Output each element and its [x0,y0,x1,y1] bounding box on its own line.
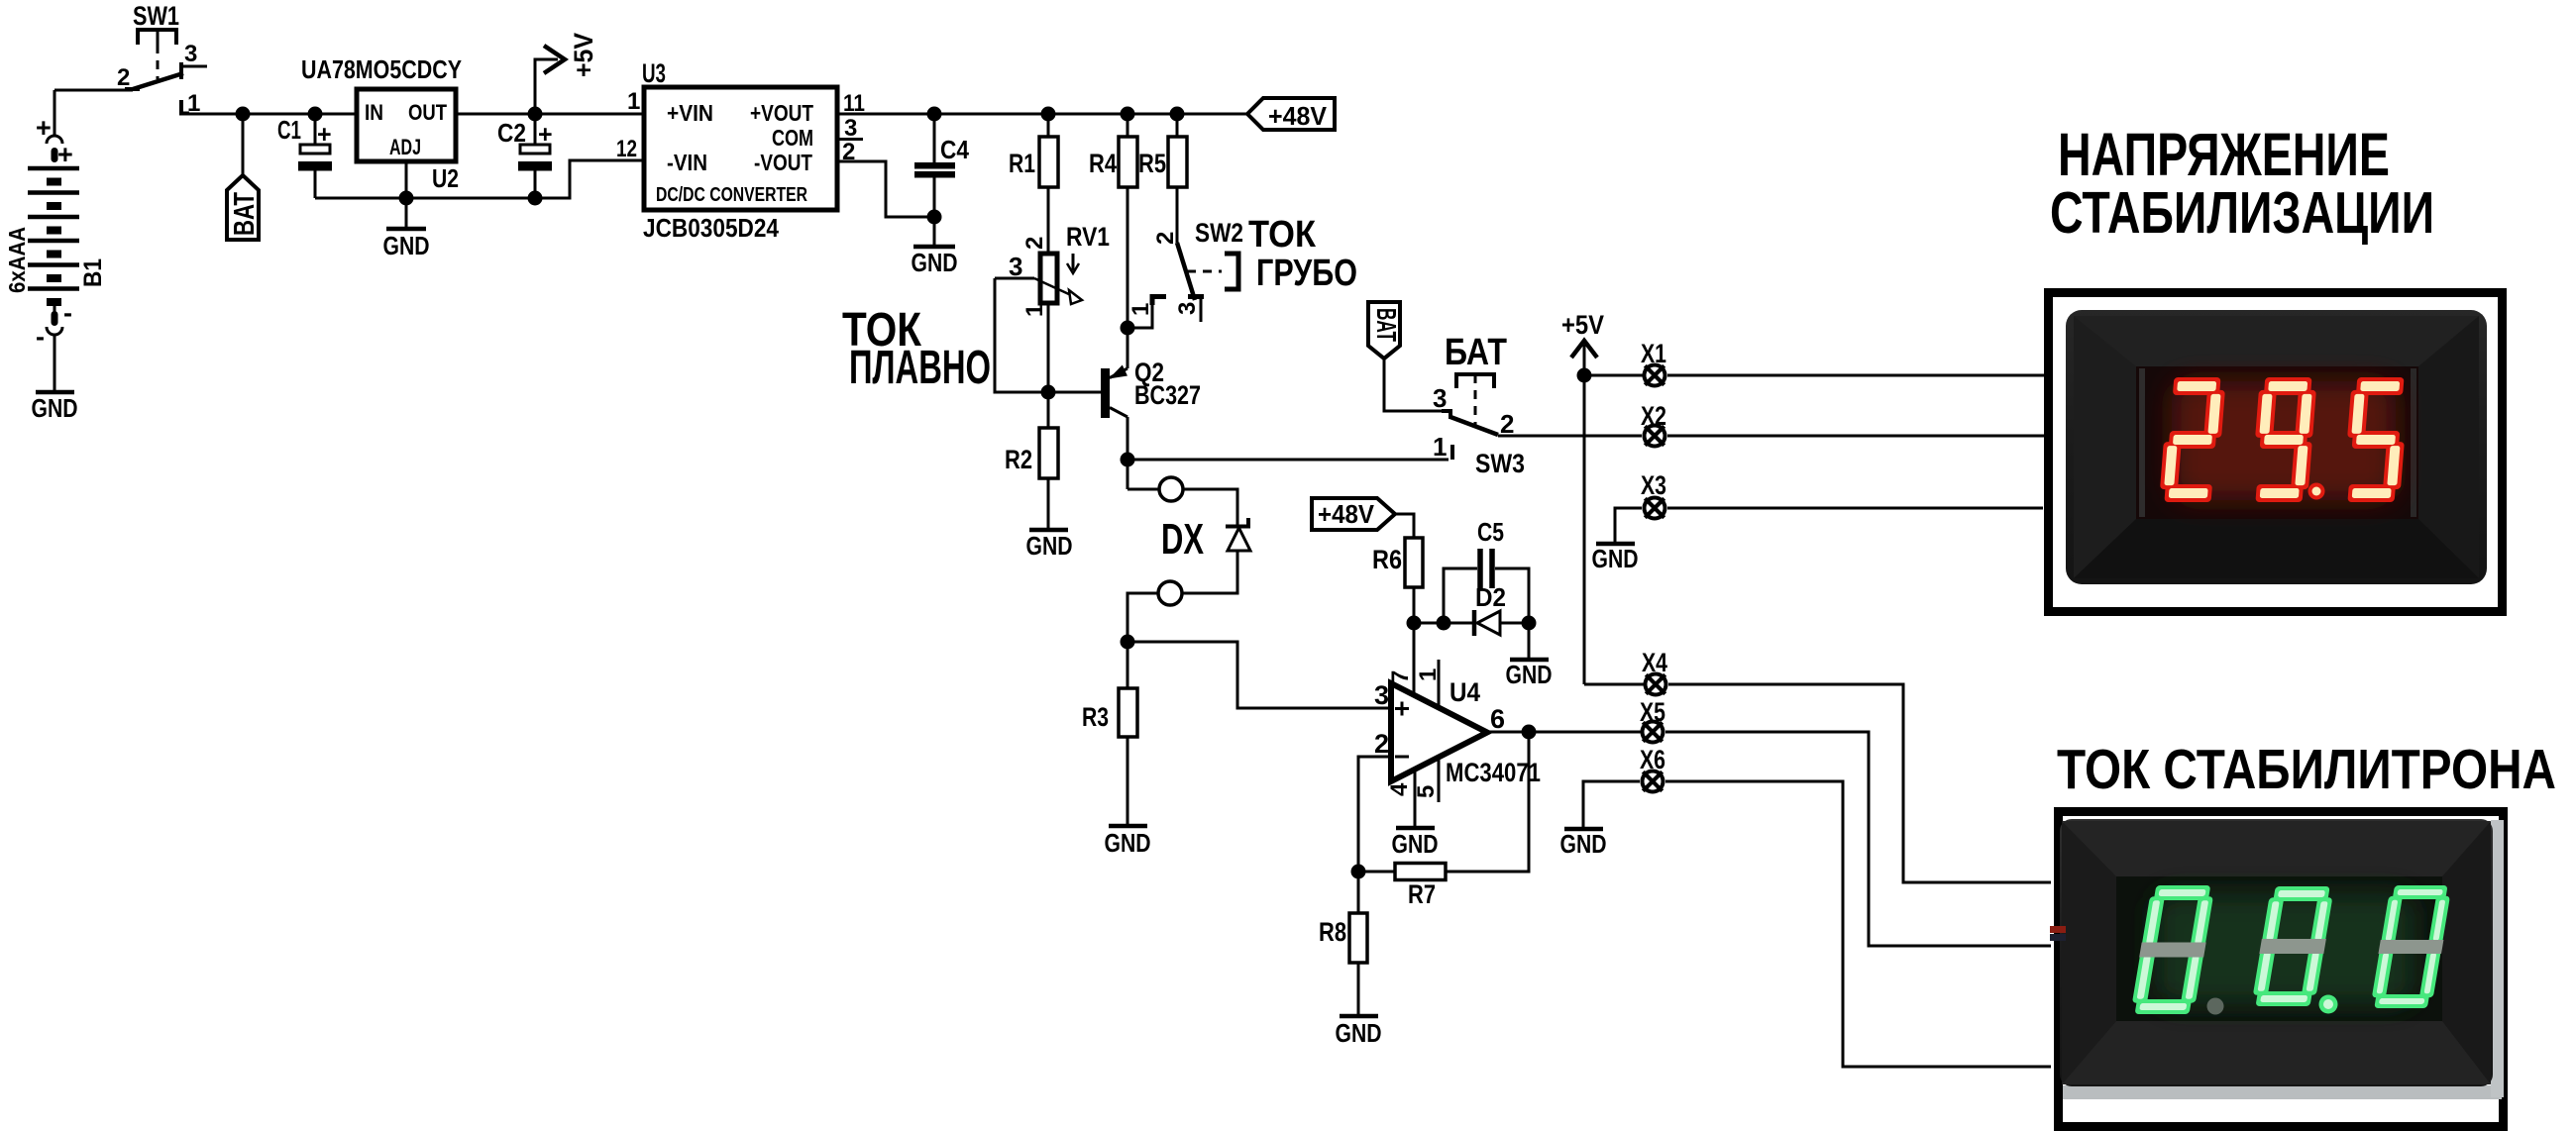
svg-text:+: + [317,121,332,149]
wire X3 gnd link [1615,508,1642,542]
junction gnd rail/ADJ [399,191,414,206]
svg-text:JCB0305D24: JCB0305D24 [643,213,779,243]
svg-text:1: 1 [1127,303,1154,316]
resistor R2 [1005,392,1058,478]
svg-text:R3: R3 [1082,702,1109,732]
terminal (test clip +) [1159,477,1183,501]
svg-text:DX: DX [1161,515,1204,564]
terminal (test clip -) [1158,581,1182,605]
wire RV1 pin1 down [1047,303,1050,392]
svg-text:12: 12 [616,136,637,162]
svg-text:3: 3 [1433,383,1447,413]
svg-text:GND: GND [1392,829,1439,859]
net flag BAT (right) [1368,302,1402,359]
wire X4 to display [1668,684,2051,882]
potentiometer RV1 [995,222,1110,317]
svg-text:BC327: BC327 [1134,380,1201,410]
green ammeter photo [2060,819,2504,1099]
ground C4 [912,217,958,277]
wire SW1 pin2 to battery [54,89,133,92]
wire U2 OUT to U3 [456,113,644,116]
junction sense node [1121,635,1135,650]
svg-text:GND: GND [383,231,430,260]
wire U4 pin2 to feedback node [1358,757,1391,872]
wire X5 to display [1665,732,2051,946]
connector X3 [1641,470,1666,519]
switch SW2 [1127,187,1243,328]
svg-text:R7: R7 [1408,879,1436,909]
red 7-seg digit 2 [2159,377,2226,502]
svg-text:D2: D2 [1475,582,1506,612]
switch SW1 [117,1,207,117]
svg-text:7: 7 [1387,670,1414,683]
ground U4 pin4 [1392,770,1439,859]
power symbol +5V (right) [1561,310,1604,684]
resistor R5 [1138,114,1187,187]
ground U2 [383,198,430,260]
svg-text:COM: COM [772,125,813,151]
svg-text:U3: U3 [642,58,666,88]
ground X6 [1560,781,1641,859]
diode D2 [1474,582,1529,636]
wire R4 down to emitter node [1127,187,1129,368]
svg-text:R4: R4 [1089,149,1117,178]
display frame (voltmeter) [2049,293,2503,612]
wire U3 -VOUT to gnd net [837,161,934,217]
wire terminal to DX cathode [1183,489,1237,526]
wire X2 to display [1667,435,2047,438]
net flag BAT (left) [227,175,261,240]
svg-text:GND: GND [1560,829,1607,859]
junction C4/-VOUT [927,210,942,225]
wire X3 to display [1667,507,2043,510]
svg-text:R6: R6 [1372,545,1402,574]
svg-text:1: 1 [1021,304,1048,317]
net flag +48V (op-amp supply) [1312,498,1395,530]
resistor R7 [1358,864,1446,910]
svg-text:GND: GND [912,248,958,277]
svg-text:SW2: SW2 [1195,218,1243,248]
ground D2 [1506,623,1553,689]
svg-text:C4: C4 [940,135,969,164]
svg-text:3: 3 [1174,302,1201,315]
junction rail/R4 [1121,107,1135,122]
zener diode DX [1161,515,1250,564]
svg-text:+: + [57,140,73,169]
svg-text:СТАБИЛИЗАЦИИ: СТАБИЛИЗАЦИИ [2050,180,2434,246]
wire SW1 pin1 to U2 IN (main rail) [188,113,357,116]
capacitor C4 [914,114,969,217]
junction feedback node [1351,865,1366,879]
green unlit dot [2207,998,2224,1015]
net flag +48V (rail) [1247,98,1335,131]
svg-text:IN: IN [365,100,383,125]
junction R6/D2/pin7 [1407,616,1422,631]
svg-text:-VIN: -VIN [667,150,707,175]
svg-text:3: 3 [1374,680,1389,710]
svg-text:6: 6 [1490,704,1505,734]
svg-text:2: 2 [1021,237,1048,250]
display frame (ammeter) [2059,812,2504,1127]
svg-text:+VOUT: +VOUT [750,100,813,126]
battery B1 (6xAAA) [28,90,79,352]
wire collector to terminal [1127,488,1159,491]
junction collector/SW3 wire [1121,453,1135,467]
connector X6 [1640,745,1665,792]
wire +5V to X4 [1584,683,1644,686]
svg-text:R2: R2 [1005,445,1032,474]
wire SW3 pin2 to X2 [1498,435,1642,438]
capacitor C1 [277,114,332,198]
ground R8 [1336,963,1382,1048]
wire base node to Q2 [1048,391,1101,394]
svg-text:U4: U4 [1449,677,1480,707]
svg-text:-VOUT: -VOUT [754,150,812,175]
svg-text:GND: GND [1336,1018,1382,1048]
wire Q2 collector down [1127,417,1129,489]
svg-text:2: 2 [117,64,130,91]
switch SW3 [1433,332,1525,478]
svg-text:R5: R5 [1138,149,1166,178]
wire X6 to display [1665,781,2051,1067]
red wire stub in photo [2050,926,2066,933]
svg-text:-: - [36,322,45,352]
green 7-seg digit 0 (second) [2250,886,2334,1006]
dc/dc converter U3 JCB0305D24 [642,58,837,243]
red 7-seg digit 9 [2250,377,2317,502]
wire to BAT flag [242,114,245,175]
resistor R3 [1082,642,1137,737]
junction base node [1041,385,1056,400]
svg-text:3: 3 [844,115,857,142]
svg-text:1: 1 [1415,668,1442,681]
svg-text:C5: C5 [1477,517,1504,547]
wire R6 to pin7 node [1413,587,1416,623]
svg-text:ГРУБО: ГРУБО [1256,253,1357,294]
junction +5V/X1 [1577,368,1592,383]
wire +5V to X1 [1584,374,1643,377]
svg-text:+48V: +48V [1318,499,1375,529]
svg-text:+: + [538,121,553,149]
transistor Q2 BC327 [1101,358,1201,418]
connector X5 [1640,697,1665,743]
svg-text:ТОК СТАБИЛИТРОНА: ТОК СТАБИЛИТРОНА [2057,738,2556,801]
wire R1 to RV1 [1047,187,1050,254]
wire sense node to op-amp pin3 [1127,642,1391,708]
svg-text:БАТ: БАТ [1445,332,1507,373]
svg-text:1: 1 [1433,432,1447,462]
junction gnd rail/C2 [528,191,543,206]
green 7-seg digit 0 (third) [2369,885,2452,1008]
resistor R8 [1319,872,1367,963]
junction rail/R1 [1041,107,1056,122]
svg-text:R1: R1 [1009,149,1035,178]
wire X1 to display [1667,374,2047,377]
capacitor C2 [497,114,553,198]
power symbol +5V (left) [535,33,598,114]
svg-text:R8: R8 [1319,917,1346,947]
svg-text:OUT: OUT [408,100,447,125]
pin 3 stub U3 [839,138,863,141]
svg-text:DC/DC CONVERTER: DC/DC CONVERTER [656,184,807,206]
junction output/X5 [1522,725,1537,740]
red voltmeter photo bezel [2066,310,2487,584]
svg-text:BAT: BAT [229,192,261,236]
svg-text:GND: GND [32,393,78,423]
ground X3 [1592,544,1639,573]
svg-text:SW1: SW1 [133,1,179,31]
resistor R1 [1009,114,1058,187]
ground battery [32,392,78,423]
ground R2 [1026,478,1073,561]
wire D2 net [1414,622,1474,625]
wire U2 ADJ to gnd rail [405,161,408,198]
red decimal point [2308,483,2325,500]
svg-text:1: 1 [627,88,640,115]
regulator U2 UA78MO5CDCY [301,54,462,193]
svg-text:6xAAA: 6xAAA [4,227,30,293]
svg-text:U2: U2 [432,163,459,193]
junction rail/C1 [308,107,323,122]
svg-text:НАПРЯЖЕНИЕ: НАПРЯЖЕНИЕ [2058,121,2390,188]
svg-text:-: - [63,298,72,328]
svg-text:GND: GND [1592,544,1639,573]
wire DX anode to terminal 2 [1182,551,1237,593]
wire +48V flag to R6 [1395,514,1414,538]
svg-text:B1: B1 [79,258,107,287]
svg-text:5: 5 [1413,785,1440,798]
svg-text:GND: GND [1105,828,1151,858]
wire terminal 2 to sense node [1127,593,1158,642]
wire R7 to output [1446,732,1529,872]
connector X2 [1641,401,1666,447]
svg-text:GND: GND [1026,531,1073,561]
wire collector to SW3 pin1 [1127,459,1449,462]
svg-text:SW3: SW3 [1475,449,1525,478]
wire U4 output [1487,731,1641,734]
svg-text:ПЛАВНО: ПЛАВНО [849,342,991,394]
junction rail/C4 [927,107,942,122]
svg-text:+5V: +5V [569,33,598,77]
green decimal point [2319,995,2338,1014]
junction rail/C2 [528,107,543,122]
svg-text:C1: C1 [277,115,301,145]
svg-text:BAT: BAT [1371,308,1402,342]
ground R3 [1105,737,1151,858]
junction rail/R5 [1170,107,1185,122]
wire U3 +VOUT to +48V rail [837,113,1249,116]
gnd rail under U2 [315,160,644,198]
svg-text:UA78MO5CDCY: UA78MO5CDCY [301,54,462,84]
svg-text:RV1: RV1 [1066,222,1110,252]
svg-text:ТОК: ТОК [1248,214,1317,256]
svg-text:+VIN: +VIN [667,100,713,126]
svg-text:GND: GND [1506,660,1553,689]
wire BAT flag to SW3 pin3 [1384,359,1442,411]
wire battery minus to GND [54,342,56,390]
op-amp U4 MC34071 [1374,623,1541,802]
resistor R6 [1372,538,1423,587]
capacitor C5 [1444,517,1529,623]
svg-text:X3: X3 [1641,470,1666,500]
resistor R4 [1089,114,1137,187]
svg-text:+48V: +48V [1268,101,1328,131]
junction C5 left [1437,616,1451,631]
connector X1 [1641,339,1666,386]
junction rail/BAT flag [236,107,251,122]
svg-text:ADJ: ADJ [389,135,421,159]
svg-text:2: 2 [1152,232,1179,245]
red 7-seg digit 5 [2342,377,2410,502]
svg-text:MC34071: MC34071 [1446,758,1541,787]
connector X4 [1642,648,1667,695]
svg-text:+5V: +5V [1561,310,1604,340]
svg-text:4: 4 [1386,782,1413,796]
junction emitter/SW2 pin1 [1121,321,1135,336]
svg-text:3: 3 [184,41,197,67]
green 7-seg digit 0 (first) [2130,885,2216,1014]
wire RV1 wiper loop to base junction [995,278,1049,392]
junction D2/C5 right [1522,616,1537,631]
svg-text:2: 2 [1374,729,1389,759]
